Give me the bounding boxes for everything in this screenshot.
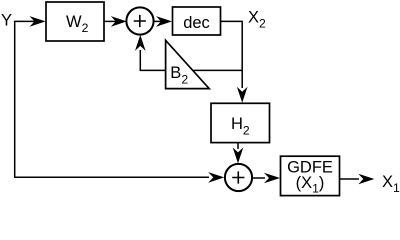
svg-text:dec: dec <box>183 14 210 32</box>
svg-text:X2: X2 <box>248 8 266 30</box>
wire GDFE to X1 <box>340 178 359 180</box>
block W2 <box>46 2 104 41</box>
svg-text:Y: Y <box>1 12 12 30</box>
wire H2 to sum2 <box>237 143 239 149</box>
wire dec to X2 corner down to H2 <box>221 21 243 88</box>
wire sum2 to GDFE <box>253 177 265 179</box>
wire B2 to sum1 <box>140 50 165 70</box>
summing junction 2 <box>225 164 252 191</box>
wire sum1 to dec <box>154 20 166 22</box>
amplifier B2 <box>166 40 210 88</box>
block H2 <box>211 103 270 142</box>
block GDFE <box>281 156 340 195</box>
svg-text:X1: X1 <box>382 173 400 195</box>
summing junction 1 <box>126 7 153 34</box>
wire Y branch down and along bottom to sum2 <box>15 21 209 177</box>
block dec <box>173 7 221 35</box>
feedback wire from X2 line to B2 <box>194 69 243 71</box>
wire W2 to sum1 <box>104 20 118 22</box>
wire Y to W2 <box>14 20 41 22</box>
